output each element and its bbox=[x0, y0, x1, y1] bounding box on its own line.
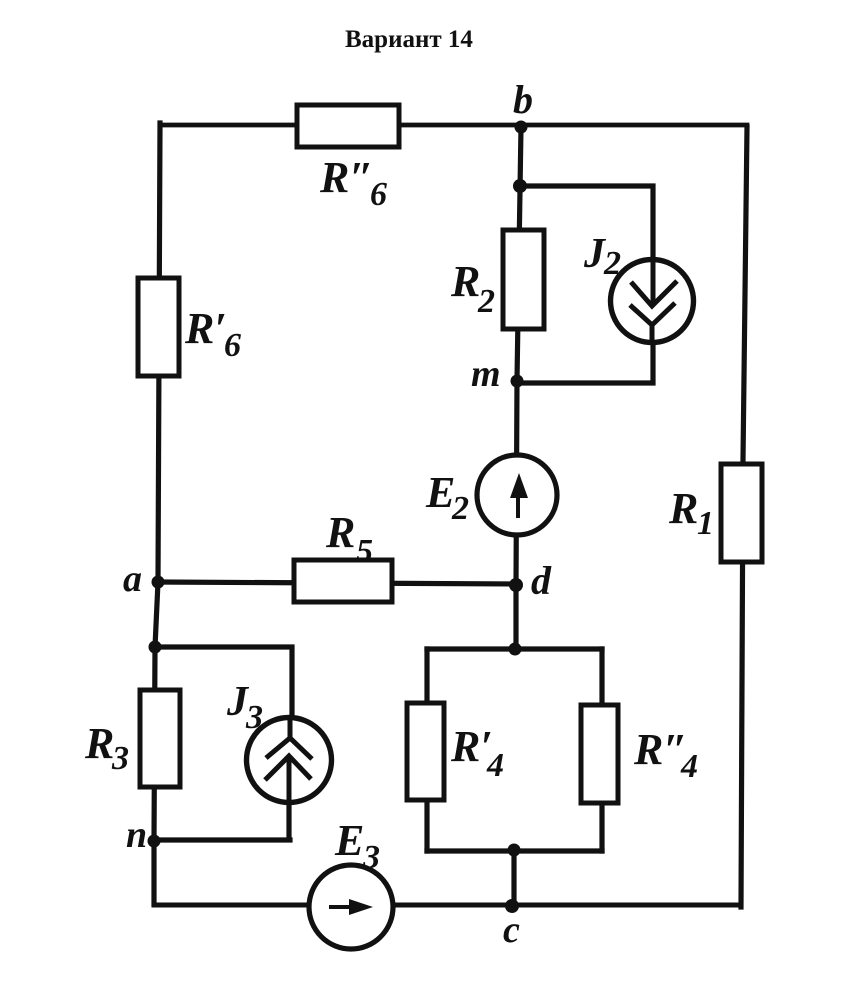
label R''4 bbox=[633, 725, 698, 785]
svg-text:Вариант 14: Вариант 14 bbox=[345, 26, 473, 53]
svg-text:d: d bbox=[531, 558, 552, 603]
wire parallel bottom rail bbox=[427, 848, 602, 853]
label E3 bbox=[334, 816, 380, 876]
svg-text:6: 6 bbox=[370, 176, 387, 213]
resistor R1 bbox=[721, 464, 762, 562]
svg-text:E: E bbox=[334, 816, 364, 865]
label R5 bbox=[325, 508, 373, 570]
label R'4 bbox=[450, 722, 504, 784]
wire left vertical: corner through R'6, a, R3, n to bottom bbox=[154, 123, 160, 904]
svg-text:6: 6 bbox=[224, 327, 241, 364]
svg-text:1: 1 bbox=[697, 505, 714, 542]
wire d down to parallel-4 junction bbox=[513, 586, 518, 649]
svg-text:R″: R″ bbox=[319, 153, 374, 202]
node c junction dot bbox=[505, 899, 519, 913]
wire parallel top rail bbox=[427, 646, 602, 651]
node b junction dot bbox=[515, 121, 528, 134]
svg-text:c: c bbox=[503, 909, 520, 951]
node m junction dot bbox=[511, 375, 524, 388]
wire top: a-corner to b to right corner bbox=[161, 123, 747, 128]
label J2 bbox=[583, 231, 621, 282]
junction dot bottom of parallel pair bbox=[508, 844, 521, 857]
node a junction dot bbox=[152, 576, 165, 589]
svg-text:4: 4 bbox=[486, 747, 504, 784]
svg-text:R: R bbox=[84, 719, 114, 768]
label R3 bbox=[84, 719, 129, 777]
svg-text:3: 3 bbox=[362, 839, 380, 876]
svg-text:2: 2 bbox=[603, 245, 621, 282]
label J3 bbox=[226, 679, 263, 736]
wire bottom: left corner to right corner bbox=[154, 903, 741, 908]
resistor R'6 bbox=[138, 278, 179, 376]
wire junction under b to J2 branch down to m bbox=[517, 186, 653, 383]
wire right vertical: top corner through R1 to bottom corner bbox=[741, 127, 747, 907]
junction dot below d bbox=[509, 643, 522, 656]
resistor R5 bbox=[294, 560, 392, 602]
svg-text:R″: R″ bbox=[633, 725, 688, 774]
resistor R''4 bbox=[581, 705, 618, 803]
svg-text:R: R bbox=[325, 508, 355, 557]
node d junction dot bbox=[509, 578, 523, 592]
wire a-junction to J3 branch down to n bbox=[154, 647, 292, 840]
svg-text:4: 4 bbox=[680, 748, 698, 785]
wire b down through R2, m, E2 to d bbox=[516, 127, 521, 586]
svg-text:R: R bbox=[668, 484, 698, 533]
wire a to d through R5 bbox=[158, 582, 516, 584]
wire R'4 branch vertical bbox=[424, 649, 429, 851]
junction dot below a bbox=[149, 641, 162, 654]
svg-text:5: 5 bbox=[356, 533, 373, 570]
wire parallel junction down to c bbox=[511, 851, 516, 906]
current source J3 bbox=[247, 718, 332, 804]
svg-text:2: 2 bbox=[477, 283, 495, 320]
svg-text:2: 2 bbox=[451, 490, 469, 527]
svg-text:m: m bbox=[471, 353, 501, 395]
svg-text:a: a bbox=[123, 558, 142, 600]
wire R''4 branch vertical bbox=[599, 649, 604, 851]
node n junction dot bbox=[148, 835, 161, 848]
svg-text:3: 3 bbox=[245, 699, 263, 736]
svg-text:R′: R′ bbox=[184, 304, 227, 353]
label E2 bbox=[425, 468, 469, 527]
junction dot below b bbox=[513, 179, 527, 193]
label R1 bbox=[668, 484, 714, 542]
svg-text:3: 3 bbox=[111, 740, 129, 777]
resistor R2 bbox=[503, 230, 544, 329]
emf source E3 bbox=[309, 865, 393, 949]
resistor R''6 bbox=[297, 105, 399, 147]
label R'6 bbox=[184, 304, 241, 364]
svg-text:E: E bbox=[425, 468, 455, 517]
resistor R3 bbox=[140, 690, 180, 787]
svg-text:n: n bbox=[126, 814, 147, 856]
label R''6 bbox=[319, 153, 387, 213]
svg-text:b: b bbox=[513, 77, 533, 122]
emf source E2 bbox=[477, 455, 557, 535]
current source J2 bbox=[611, 260, 694, 344]
svg-text:R: R bbox=[450, 257, 480, 306]
label R2 bbox=[450, 257, 495, 320]
resistor R'4 bbox=[407, 703, 444, 800]
